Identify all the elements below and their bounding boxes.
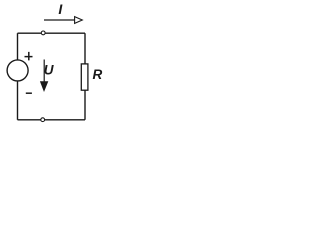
- wire: top wire from left corner to right corner: [18, 32, 86, 34]
- node: bottom terminal circle: [41, 118, 45, 122]
- voltage arrow U shaft: [43, 60, 45, 83]
- current arrow I open head: [75, 17, 83, 24]
- wire: left vertical wire lower segment (source bottom to bottom corner): [17, 81, 19, 120]
- wire: left vertical wire upper segment (top corner down to source top): [17, 33, 19, 60]
- current arrow I shaft: [44, 19, 75, 21]
- plus sign (source polarity +): [25, 52, 33, 61]
- node: top terminal circle: [41, 31, 45, 35]
- wire: bottom wire from left corner to right corner: [18, 119, 86, 121]
- resistor R body: [81, 64, 88, 90]
- svg-text:R: R: [93, 67, 103, 82]
- wire: right vertical wire upper segment (top corner down to resistor top): [84, 33, 86, 64]
- svg-text:U: U: [44, 62, 55, 77]
- svg-text:I: I: [58, 1, 63, 17]
- voltage source circle: [7, 60, 28, 81]
- voltage arrow U filled head: [40, 81, 48, 92]
- minus sign (source polarity -): [26, 92, 32, 94]
- wire: right vertical wire lower segment (resistor bottom to bottom corner): [84, 90, 86, 120]
